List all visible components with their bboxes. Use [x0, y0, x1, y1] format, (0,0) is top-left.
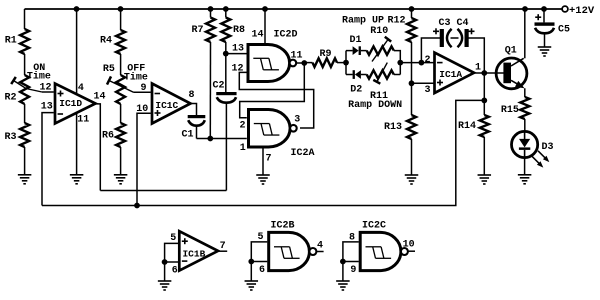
pin 7 label IC2A [265, 153, 271, 164]
svg-text:R6: R6 [102, 131, 114, 142]
svg-text:C1: C1 [181, 129, 193, 140]
svg-text:+12V: +12V [569, 5, 595, 17]
svg-text:5: 5 [170, 233, 176, 244]
wire rail to R12 [411, 9, 413, 18]
IC2C label [362, 221, 386, 232]
wire rail to C5 [543, 9, 545, 22]
diode D1 [349, 35, 361, 55]
ground IC2B [245, 281, 258, 290]
pin 5 label [170, 233, 176, 244]
op-amp IC1C [152, 84, 191, 124]
svg-text:8: 8 [188, 90, 194, 101]
svg-text:R14: R14 [458, 121, 476, 132]
wire rail drop to R1 [24, 9, 26, 29]
svg-text:R2: R2 [4, 93, 16, 104]
wire R2 to R3 [24, 104, 26, 123]
wire Q1 collector to rail [524, 9, 526, 58]
svg-text:13: 13 [41, 101, 53, 112]
pin 8 label [188, 90, 194, 101]
pin 2 label IC1A [424, 55, 430, 66]
wire output down [483, 73, 485, 100]
pin 1 label [240, 143, 246, 154]
junction rail/R12 [409, 6, 415, 12]
junction output/C4 [481, 70, 487, 76]
wire pin 3 to IC1A [412, 82, 435, 84]
wire R9 to branch node [337, 62, 346, 64]
svg-text:R7: R7 [191, 25, 203, 36]
wire rail to R4 [120, 9, 122, 30]
junction rail/IC2 pin14 [262, 6, 268, 12]
svg-text:Ramp UP: Ramp UP [342, 15, 384, 26]
wire R14 to ground [483, 137, 485, 175]
wire R2 wiper to pin 12 [42, 91, 54, 93]
wire down to R13 [411, 83, 413, 115]
wire R11 to rejoin [394, 74, 401, 76]
wire R15 to D3 [524, 119, 526, 132]
IC2A label [290, 148, 314, 159]
svg-text:14: 14 [251, 30, 263, 41]
wire rail to R7 [210, 9, 212, 18]
svg-text:D2: D2 [350, 84, 362, 95]
resistor R14 [458, 115, 489, 137]
NAND gate IC2D [248, 45, 296, 82]
wire IC2B to ground [250, 262, 252, 282]
svg-text:6: 6 [172, 266, 178, 277]
wire R8 to C2 junction [225, 42, 227, 92]
svg-text:IC2A: IC2A [290, 148, 314, 159]
ground R6 [114, 175, 128, 184]
label ON Time [27, 63, 51, 82]
svg-text:6: 6 [259, 265, 265, 276]
wire R10 to rejoin [394, 51, 401, 75]
wire pin 4 to rail [76, 9, 78, 94]
wire R4 to R5 [120, 54, 122, 75]
wire pin 11 to ground [76, 113, 78, 175]
svg-text:R5: R5 [103, 64, 115, 75]
capacitor C2 [212, 81, 236, 103]
svg-text:IC1B: IC1B [182, 248, 205, 259]
junction pin10 riser [134, 203, 140, 209]
wire R6 to ground [120, 147, 122, 175]
pin 6 label [172, 266, 178, 277]
junction rail/R8 [223, 6, 229, 12]
pin 8 label IC2C [349, 233, 355, 244]
svg-text:IC2C: IC2C [362, 221, 386, 232]
pin 7 label IC1B [220, 241, 226, 252]
svg-text:Q1: Q1 [505, 46, 517, 57]
potentiometer R5 [103, 64, 134, 104]
junction rail/R7 [208, 6, 214, 12]
wire feedback to comparator inputs [42, 100, 484, 205]
svg-text:9: 9 [350, 265, 356, 276]
junction IC2D output node [301, 60, 307, 66]
pin 4 label IC2B [317, 240, 323, 251]
NAND gate IC2C [360, 232, 408, 270]
wire IC2C output stub [408, 250, 415, 252]
wire IC1B to ground [164, 262, 166, 281]
pin 4 label [78, 83, 84, 94]
wire IC2C pin 9 [343, 261, 359, 263]
junction rail/IC1 pin4 [74, 6, 80, 12]
wire C1 to node [196, 126, 198, 139]
pin 1 label IC1A [475, 62, 481, 73]
svg-text:C3 C4: C3 C4 [438, 18, 468, 29]
wire node to R9 [304, 62, 312, 64]
LED D3 [511, 131, 553, 167]
capacitor C3 [433, 28, 452, 47]
svg-text:2: 2 [239, 120, 245, 131]
op-amp IC1A [435, 53, 475, 93]
wire D2 to R11 [361, 74, 367, 76]
wire D3 to ground [524, 158, 526, 175]
ground C5 [538, 47, 552, 56]
resistor R3 [4, 123, 29, 147]
ground IC1D pin 11 [70, 175, 84, 184]
wire IC1B output stub [218, 250, 227, 252]
wire IC2A pin 7 to ground [262, 147, 264, 175]
ground R14 [478, 175, 492, 184]
svg-text:R8: R8 [233, 25, 245, 36]
wire IC2D pin 14 to rail [264, 9, 266, 45]
resistor R13 [384, 115, 416, 139]
svg-text:3: 3 [424, 85, 430, 96]
resistor R8 [221, 18, 245, 43]
wire IC1A output to Q1 base [474, 72, 504, 74]
wire IC2D output [296, 62, 302, 64]
junction feedback/R14 [481, 98, 487, 104]
pin 10 label [136, 104, 148, 115]
svg-text:R1: R1 [5, 36, 17, 47]
resistor R6 [102, 123, 125, 147]
pin 11 label IC2D [290, 50, 302, 61]
resistor R1 [5, 29, 29, 54]
wire node to IC1A pin 2 [400, 62, 434, 64]
pin 14 label IC2D [251, 30, 263, 41]
resistor R15 [501, 97, 529, 119]
wire IC1C output to C1 [191, 104, 197, 116]
svg-text:D3: D3 [541, 142, 553, 153]
svg-text:Time: Time [27, 70, 51, 82]
wire R1 to R2 [24, 54, 26, 75]
junction R8/pin13/C2 [223, 51, 229, 57]
wire Q1 emitter to R15 [524, 88, 526, 97]
svg-text:IC1A: IC1A [439, 69, 462, 80]
svg-text:Ramp DOWN: Ramp DOWN [348, 100, 402, 111]
capacitor C4 [458, 28, 475, 47]
svg-text:IC1D: IC1D [59, 98, 82, 109]
svg-text:R15: R15 [501, 105, 519, 116]
pin 3 label IC1A [424, 85, 430, 96]
label Ramp DOWN [348, 100, 402, 111]
pin 5 label IC2B [257, 232, 263, 243]
op-amp IC1B [179, 231, 218, 270]
svg-text:1: 1 [475, 62, 481, 73]
svg-text:R10: R10 [370, 26, 388, 37]
svg-text:R13: R13 [384, 122, 402, 133]
wire out11 to IC2A pin 2 [240, 63, 305, 118]
label OFF Time [124, 63, 148, 83]
ground R3 [18, 175, 32, 184]
wire IC2C to ground [342, 262, 344, 282]
IC2B label [270, 221, 294, 232]
resistor R9 [313, 49, 338, 67]
wire C3-C4 link [451, 37, 459, 39]
svg-text:R3: R3 [4, 132, 16, 143]
junction branch right [397, 60, 403, 66]
wire R7 down to node [209, 42, 211, 139]
svg-text:13: 13 [232, 44, 244, 55]
wire R3 to ground [24, 147, 26, 175]
terminal +12V [562, 5, 595, 17]
wire D1 to R10 [361, 50, 367, 52]
wire R5 wiper to pin 9 [134, 91, 151, 93]
svg-text:11: 11 [290, 50, 302, 61]
junction rail/R4 [118, 6, 124, 12]
resistor R4 [100, 30, 125, 54]
svg-text:IC2D: IC2D [273, 29, 297, 40]
wire C2 bottom to y190 bus [225, 103, 227, 191]
capacitor C1 [181, 115, 205, 140]
svg-text:Time: Time [124, 72, 148, 84]
wire tap up to C3 [421, 38, 440, 63]
op-amp IC1D [55, 84, 96, 124]
wire IC2B pin 6 [251, 261, 267, 263]
wire R14 down [483, 100, 485, 115]
pin 12 label [39, 83, 51, 94]
wire IC1B pin 6 [165, 261, 178, 263]
potentiometer R11 [367, 63, 394, 102]
svg-text:3: 3 [294, 114, 300, 125]
wire rail to R8 [225, 9, 227, 18]
svg-text:R9: R9 [319, 49, 331, 60]
junction IC1B inputs [162, 259, 168, 265]
junction C1/R7 [207, 136, 213, 142]
wire IC1D output bus [100, 190, 226, 192]
wire IC2B output stub [317, 251, 324, 253]
ground D3 [518, 175, 532, 184]
resistor R7 [191, 18, 215, 43]
junction C3 tap [419, 60, 425, 66]
diode D2 [350, 70, 362, 95]
wire junction to IC2D pin 13 [226, 53, 247, 55]
pin 14 label [93, 92, 105, 103]
pin 12 label IC2D [231, 64, 243, 75]
wire R13 to ground [411, 139, 413, 175]
IC2D label [273, 29, 297, 40]
resistor R12 [387, 15, 416, 42]
svg-text:R12: R12 [387, 15, 405, 26]
label C3 C4 [438, 18, 468, 29]
wire C4 to output node [468, 38, 485, 73]
svg-text:IC2B: IC2B [270, 221, 294, 232]
pin 2 label IC2A [239, 120, 245, 131]
pin 13 label [41, 101, 53, 112]
wire R5 to R6 [120, 104, 122, 123]
wire IC2D pin 12 from IC2A out [239, 72, 313, 128]
svg-text:4: 4 [317, 240, 323, 251]
wire IC1B pin 5 [165, 243, 178, 262]
pin 10 label IC2C [403, 240, 415, 251]
pin 9 label IC2C [350, 265, 356, 276]
ground IC2C [336, 281, 350, 290]
wire C5 to ground [544, 33, 546, 47]
wire to D1 [346, 50, 353, 52]
potentiometer R2 [4, 75, 42, 104]
wire +12V supply rail [25, 8, 563, 10]
wire pin 10 stub [137, 113, 151, 205]
svg-text:14: 14 [93, 92, 105, 103]
svg-text:4: 4 [78, 83, 84, 94]
wire IC2C pin 8 [343, 242, 359, 262]
pin 9 label [140, 83, 146, 94]
svg-text:C5: C5 [558, 24, 570, 35]
NAND gate IC2A [249, 110, 297, 148]
junction IC2C inputs [340, 259, 346, 265]
wire R12 down to pin3 node [411, 42, 413, 83]
pin 3 label IC2A [294, 114, 300, 125]
pin 11 label [77, 115, 89, 126]
wire IC2B pin 5 [251, 242, 267, 262]
svg-text:R4: R4 [100, 36, 112, 47]
junction IC2B inputs [248, 259, 254, 265]
junction rail/C5 [541, 6, 547, 12]
svg-text:7: 7 [265, 153, 271, 164]
NAND gate IC2B [269, 232, 317, 270]
pin 6 label IC2B [259, 265, 265, 276]
svg-text:7: 7 [220, 241, 226, 252]
svg-text:D1: D1 [349, 35, 361, 46]
wire IC1D output [96, 104, 101, 191]
svg-text:2: 2 [424, 55, 430, 66]
svg-text:11: 11 [77, 115, 89, 126]
svg-text:IC1C: IC1C [155, 100, 178, 111]
potentiometer R10 [367, 26, 394, 61]
label Ramp UP [342, 15, 384, 26]
capacitor C5 [535, 14, 571, 35]
wire branch left vertical [345, 51, 347, 75]
pin 13 label IC2D [232, 44, 244, 55]
svg-text:C2: C2 [212, 81, 224, 92]
junction rail/Q1 collector [522, 6, 528, 12]
ground R13 [405, 175, 419, 184]
svg-text:1: 1 [240, 143, 246, 154]
wire to D2 [346, 74, 353, 76]
wire node C1/R7 to IC2A pin 1 [197, 138, 247, 140]
ground IC2A pin 7 [256, 175, 270, 184]
transistor Q1 [496, 46, 527, 89]
svg-text:10: 10 [403, 240, 415, 251]
ground IC1B [158, 281, 172, 290]
junction branch left [343, 60, 349, 66]
junction R12/R13/pin3 [409, 80, 415, 86]
wire pin 13 stub [42, 113, 54, 206]
